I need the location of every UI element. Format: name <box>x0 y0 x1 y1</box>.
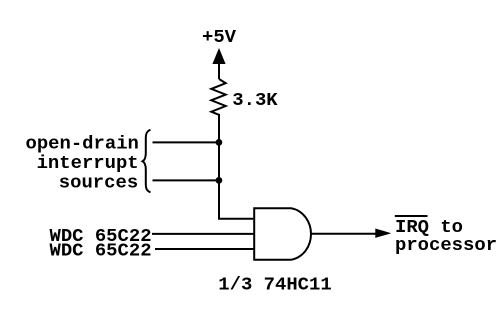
svg-text:3.3K: 3.3K <box>232 89 278 111</box>
svg-text:+5V: +5V <box>202 26 237 48</box>
power +5V arrow <box>212 48 225 64</box>
svg-text:sources: sources <box>59 171 138 193</box>
wire resistor to gate input 1 <box>219 114 253 219</box>
and-gate U1 74HC11 body <box>254 208 311 260</box>
wire gate input 2 <box>152 233 254 235</box>
resistor R1 <box>211 79 225 115</box>
arrowhead output <box>375 229 391 238</box>
wire gate output <box>311 233 378 235</box>
wire open-drain source 2 <box>153 179 219 181</box>
wire arrow stem to resistor <box>218 60 220 79</box>
svg-text:processor: processor <box>395 234 497 256</box>
wire gate input 3 <box>155 248 254 250</box>
svg-text:WDC 65C22: WDC 65C22 <box>50 239 152 261</box>
wire open-drain source 1 <box>153 141 219 143</box>
overline IRQ <box>395 215 428 217</box>
junction node A <box>216 139 223 146</box>
svg-text:1/3 74HC11: 1/3 74HC11 <box>218 273 331 295</box>
junction node B <box>216 177 223 184</box>
brace open-drain sources <box>143 130 151 193</box>
